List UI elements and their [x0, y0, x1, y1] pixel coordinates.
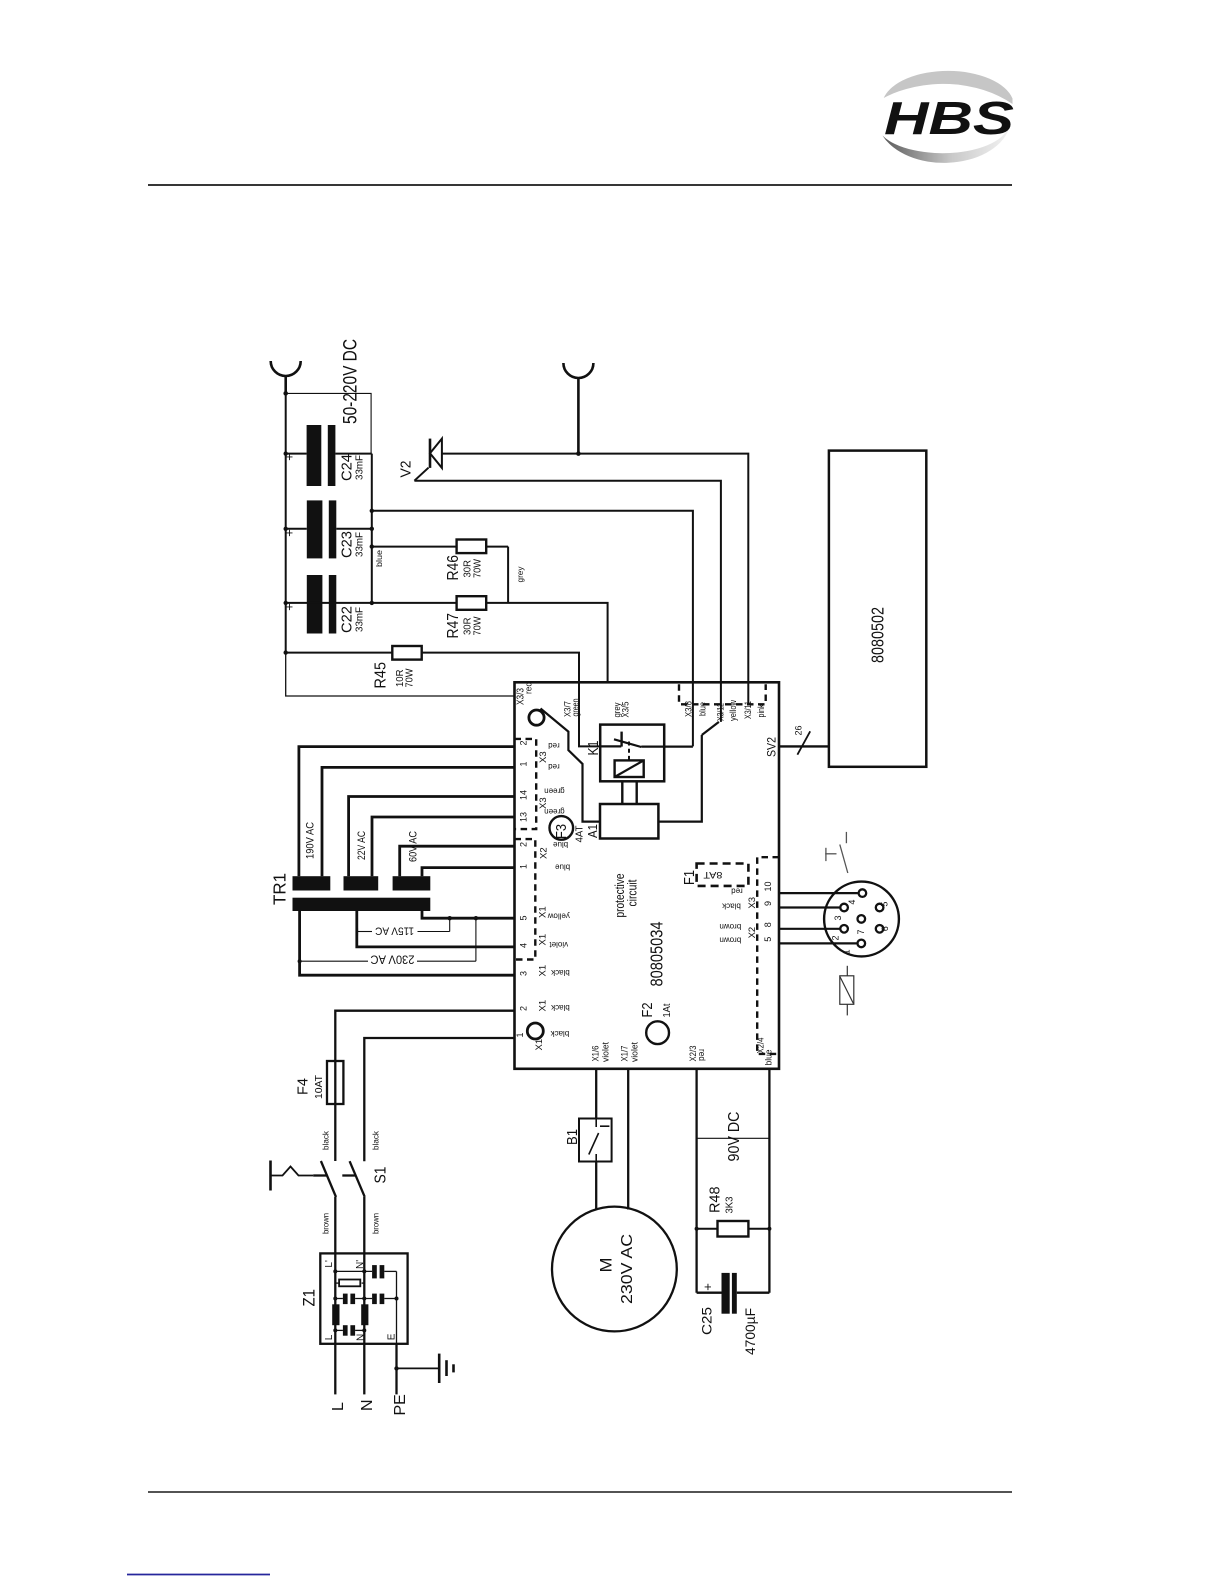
- svg-text:F1: F1: [681, 870, 698, 885]
- resistor R45: [286, 646, 422, 689]
- wire N to terminal: [363, 1344, 365, 1395]
- wire TR1 tap f: [422, 868, 515, 877]
- wire colors left edge: [544, 741, 570, 1038]
- svg-text:5: 5: [519, 915, 529, 920]
- svg-text:PE: PE: [392, 1394, 409, 1415]
- wire TR1 22V tap c: [349, 797, 515, 877]
- svg-text:L: L: [324, 1334, 335, 1340]
- connector X3/X2 right dashed: [757, 857, 779, 1054]
- svg-text:4: 4: [847, 900, 857, 905]
- svg-text:C25: C25: [699, 1307, 715, 1335]
- svg-text:circuit: circuit: [626, 879, 640, 906]
- svg-text:2: 2: [519, 740, 529, 745]
- svg-text:blue: blue: [552, 840, 568, 849]
- switch S1: [313, 1161, 389, 1197]
- svg-text:X3/12: X3/12: [716, 703, 727, 721]
- svg-text:TR1: TR1: [270, 873, 290, 905]
- svg-text:violet: violet: [601, 1042, 612, 1062]
- label X3/11 pink: [743, 701, 767, 719]
- svg-text:red: red: [696, 1049, 707, 1061]
- svg-text:B1: B1: [564, 1129, 581, 1145]
- connector SV2 dashed: [679, 684, 766, 704]
- svg-text:red: red: [548, 741, 560, 750]
- svg-text:L': L': [324, 1260, 335, 1268]
- resistor R47: [286, 596, 487, 638]
- svg-text:brown: brown: [719, 922, 741, 931]
- svg-text:X1: X1: [538, 1000, 549, 1012]
- svg-text:N': N': [355, 1260, 366, 1269]
- svg-text:green: green: [544, 807, 564, 816]
- svg-text:230V AC: 230V AC: [371, 953, 415, 965]
- svg-text:10AT: 10AT: [313, 1074, 325, 1099]
- wire X1/7 to motor: [627, 1069, 629, 1210]
- svg-text:+: +: [282, 453, 297, 461]
- svg-text:V2: V2: [398, 461, 415, 478]
- filter Z1: [301, 1253, 408, 1343]
- label X3/12 yellow: [716, 700, 740, 721]
- switch contact above connector: [825, 832, 848, 873]
- fuse F1 dashed: [681, 864, 748, 886]
- svg-text:brown: brown: [719, 936, 741, 945]
- svg-text:X3: X3: [538, 751, 549, 763]
- wire L to terminal: [334, 1344, 336, 1395]
- svg-text:X2: X2: [539, 847, 550, 859]
- svg-text:190V AC: 190V AC: [305, 822, 317, 859]
- svg-text:black: black: [550, 1003, 570, 1012]
- svg-text:black: black: [550, 1029, 570, 1038]
- svg-text:A1: A1: [585, 824, 600, 838]
- wire X3/10 to pin4: [779, 892, 858, 894]
- node 26 bus marker: [794, 726, 811, 755]
- svg-text:red: red: [731, 886, 743, 895]
- svg-text:black: black: [371, 1130, 381, 1150]
- wire X1/6 to B1: [595, 1069, 597, 1119]
- svg-text:X3: X3: [747, 897, 758, 909]
- svg-text:8: 8: [763, 922, 773, 927]
- HBS logo: [882, 71, 1014, 163]
- wire left rail: [284, 393, 515, 696]
- svg-text:3: 3: [519, 971, 529, 976]
- sensor B1: [564, 1119, 612, 1162]
- wire X2/3 down: [695, 1069, 697, 1293]
- svg-text:3: 3: [833, 915, 843, 920]
- svg-text:N: N: [355, 1334, 366, 1341]
- svg-text:1: 1: [519, 761, 529, 766]
- wire K1 to A1: [622, 781, 636, 804]
- connector X3 dashed: [515, 739, 537, 829]
- svg-text:violet: violet: [630, 1042, 641, 1062]
- relay K1: [585, 725, 693, 782]
- wire TR1 tap b: [322, 767, 515, 876]
- wire S1 to Z1: [335, 1197, 364, 1254]
- svg-text:230V AC: 230V AC: [619, 1234, 636, 1304]
- wire X2/5 to pin1: [779, 942, 857, 944]
- svg-text:S1: S1: [373, 1167, 390, 1184]
- resistor R46: [372, 540, 508, 581]
- svg-text:+: +: [282, 529, 297, 537]
- bottom edge labels: [591, 1038, 775, 1066]
- svg-text:black: black: [321, 1130, 331, 1150]
- module A1: [585, 804, 658, 839]
- wire X3/9 to pin3: [779, 906, 840, 908]
- wire V2 anode to X3/11: [442, 454, 748, 704]
- svg-text:L: L: [330, 1402, 347, 1411]
- svg-text:33mF: 33mF: [354, 455, 366, 480]
- svg-text:1At: 1At: [661, 1003, 673, 1017]
- label protective circuit: [613, 873, 640, 917]
- svg-text:26: 26: [794, 726, 805, 736]
- svg-text:F2: F2: [639, 1003, 656, 1018]
- svg-text:70W: 70W: [472, 559, 484, 578]
- svg-text:M: M: [597, 1258, 616, 1273]
- svg-text:1: 1: [842, 949, 852, 954]
- svg-text:8080502: 8080502: [868, 607, 888, 663]
- node 50-220V DC bracket: [286, 339, 371, 454]
- fuse F3: [550, 816, 586, 842]
- wire TR1 primary right: [422, 911, 515, 918]
- svg-text:4: 4: [519, 943, 529, 948]
- svg-text:33mF: 33mF: [354, 607, 366, 632]
- svg-text:blue: blue: [374, 550, 384, 567]
- S1 actuator: [271, 1161, 314, 1191]
- wire X1/1 to S1: [364, 1038, 514, 1161]
- svg-text:22V AC: 22V AC: [356, 831, 368, 860]
- svg-text:F4: F4: [295, 1078, 312, 1095]
- terminal hook 2: [563, 363, 593, 456]
- svg-text:8AT: 8AT: [703, 870, 723, 880]
- wire SV2: [779, 745, 829, 747]
- svg-text:SV2: SV2: [765, 737, 779, 757]
- svg-text:1: 1: [515, 1032, 525, 1037]
- svg-text:black: black: [550, 968, 570, 977]
- svg-text:80805034: 80805034: [647, 921, 667, 986]
- svg-text:HBS: HBS: [884, 92, 1014, 144]
- svg-text:50-220V DC: 50-220V DC: [341, 339, 362, 424]
- svg-text:blue: blue: [764, 1050, 775, 1066]
- top rule: [148, 184, 1012, 186]
- label black black: [321, 1130, 381, 1150]
- footer blue line: [127, 1574, 270, 1576]
- svg-text:9: 9: [763, 901, 773, 906]
- wire grey X3/5: [486, 603, 607, 682]
- wire X2/8 to pin2: [779, 928, 840, 930]
- label X3/8 blue: [684, 701, 709, 717]
- connector X2/X1 dashed: [515, 839, 536, 959]
- svg-text:2: 2: [519, 842, 529, 847]
- label L N PE: [330, 1394, 409, 1415]
- fuse F4: [295, 1061, 344, 1161]
- svg-text:black: black: [721, 901, 741, 910]
- motor M: [552, 1207, 677, 1332]
- wire grey R46-R47: [508, 547, 525, 603]
- svg-text:N: N: [359, 1399, 376, 1411]
- svg-text:red: red: [524, 682, 534, 694]
- wire pad zigzag to A1: [541, 709, 601, 822]
- round connector: [824, 882, 899, 957]
- wire PE to terminal: [395, 1344, 397, 1395]
- svg-text:5: 5: [763, 937, 773, 942]
- svg-text:R48: R48: [707, 1187, 724, 1214]
- label brown brown: [321, 1213, 381, 1234]
- svg-text:brown: brown: [321, 1213, 331, 1234]
- svg-text:1: 1: [519, 864, 529, 869]
- svg-text:F3: F3: [554, 824, 570, 839]
- svg-text:4AT: 4AT: [574, 825, 586, 843]
- connector names left: [534, 751, 550, 1050]
- wire A1 to X3/12 blade: [658, 735, 701, 822]
- diode V2: [398, 439, 442, 481]
- node 90V DC: [697, 1112, 770, 1162]
- svg-text:2: 2: [830, 935, 840, 940]
- svg-text:X1: X1: [534, 1039, 545, 1051]
- wire blue X3/8: [372, 511, 693, 747]
- svg-text:X3/5: X3/5: [621, 702, 632, 718]
- capacitor C25: [697, 1273, 770, 1355]
- wire X3/7 from R45: [422, 653, 601, 747]
- wire TR1 primary mid 115V: [357, 911, 515, 947]
- ground: [397, 1354, 454, 1383]
- svg-text:6: 6: [880, 926, 890, 931]
- wire right cap rail: [370, 454, 374, 606]
- svg-text:brown: brown: [371, 1213, 381, 1234]
- svg-text:70W: 70W: [472, 616, 484, 635]
- box 8080502: [829, 451, 926, 767]
- svg-text:red: red: [548, 762, 560, 771]
- wire TR1 tap d: [372, 817, 515, 876]
- label grey X3/5: [612, 702, 632, 718]
- svg-text:blue: blue: [554, 862, 570, 871]
- svg-text:yellow: yellow: [728, 700, 739, 721]
- svg-text:X1: X1: [538, 965, 549, 977]
- svg-text:X2: X2: [747, 927, 758, 939]
- svg-text:green: green: [544, 786, 564, 795]
- solenoid below connector: [840, 966, 854, 1016]
- fuse F2: [639, 1003, 673, 1045]
- node 230V AC annotation: [300, 918, 476, 964]
- wire X2/4 down: [768, 1069, 770, 1293]
- pad X1/1: [527, 1023, 543, 1039]
- svg-text:violet: violet: [549, 940, 568, 949]
- node 115V AC annotation: [358, 918, 450, 936]
- svg-text:pink: pink: [756, 704, 767, 717]
- svg-text:14: 14: [519, 790, 529, 800]
- blade X3/12: [702, 722, 719, 735]
- svg-text:yellow: yellow: [547, 911, 569, 920]
- main board 80805034: [515, 682, 780, 1069]
- svg-text:R46: R46: [445, 555, 462, 581]
- svg-text:grey: grey: [515, 566, 525, 583]
- wire X1/2 to F4: [335, 1011, 514, 1061]
- wire B1 to motor: [595, 1162, 597, 1209]
- label X3/7 green: [563, 699, 582, 718]
- capacitor C24: [282, 425, 372, 486]
- svg-text:70W: 70W: [404, 668, 416, 687]
- wire colors right edge: [719, 886, 742, 944]
- pin numbers left edge: [515, 740, 529, 1037]
- svg-text:4700µF: 4700µF: [742, 1308, 758, 1355]
- svg-text:E: E: [387, 1333, 398, 1340]
- svg-text:5: 5: [880, 902, 890, 907]
- resistor R48: [695, 1187, 772, 1237]
- wire TR1 190V tap a: [299, 747, 515, 877]
- bottom rule: [148, 1491, 1012, 1493]
- terminal hook 1: [271, 361, 301, 396]
- svg-text:3K3: 3K3: [724, 1196, 736, 1213]
- capacitor C23: [282, 500, 372, 558]
- svg-text:90V DC: 90V DC: [726, 1112, 743, 1162]
- svg-text:+: +: [700, 1283, 715, 1291]
- svg-text:60V AC: 60V AC: [408, 831, 420, 862]
- svg-text:Z1: Z1: [301, 1289, 319, 1307]
- svg-text:K1: K1: [585, 741, 602, 756]
- svg-text:+: +: [282, 603, 297, 611]
- svg-text:7: 7: [856, 929, 866, 934]
- wire TR1 60V tap e: [400, 846, 515, 876]
- svg-text:R45: R45: [373, 662, 390, 689]
- capacitor C22: [282, 575, 366, 634]
- wire V2 cathode to X3/12: [414, 481, 721, 722]
- svg-text:X1: X1: [538, 906, 549, 918]
- svg-text:X1: X1: [538, 934, 549, 946]
- transformer TR1: [270, 873, 431, 911]
- svg-text:green: green: [571, 699, 582, 717]
- pad X3/3: [516, 682, 545, 725]
- svg-text:2: 2: [519, 1006, 529, 1011]
- svg-text:115V AC: 115V AC: [375, 925, 414, 937]
- wire TR1 primary left 230V: [300, 911, 515, 975]
- svg-text:10: 10: [763, 881, 773, 891]
- right connector pins + names: [747, 881, 773, 941]
- svg-text:13: 13: [519, 812, 529, 822]
- svg-text:33mF: 33mF: [354, 532, 366, 557]
- svg-text:R47: R47: [445, 613, 462, 639]
